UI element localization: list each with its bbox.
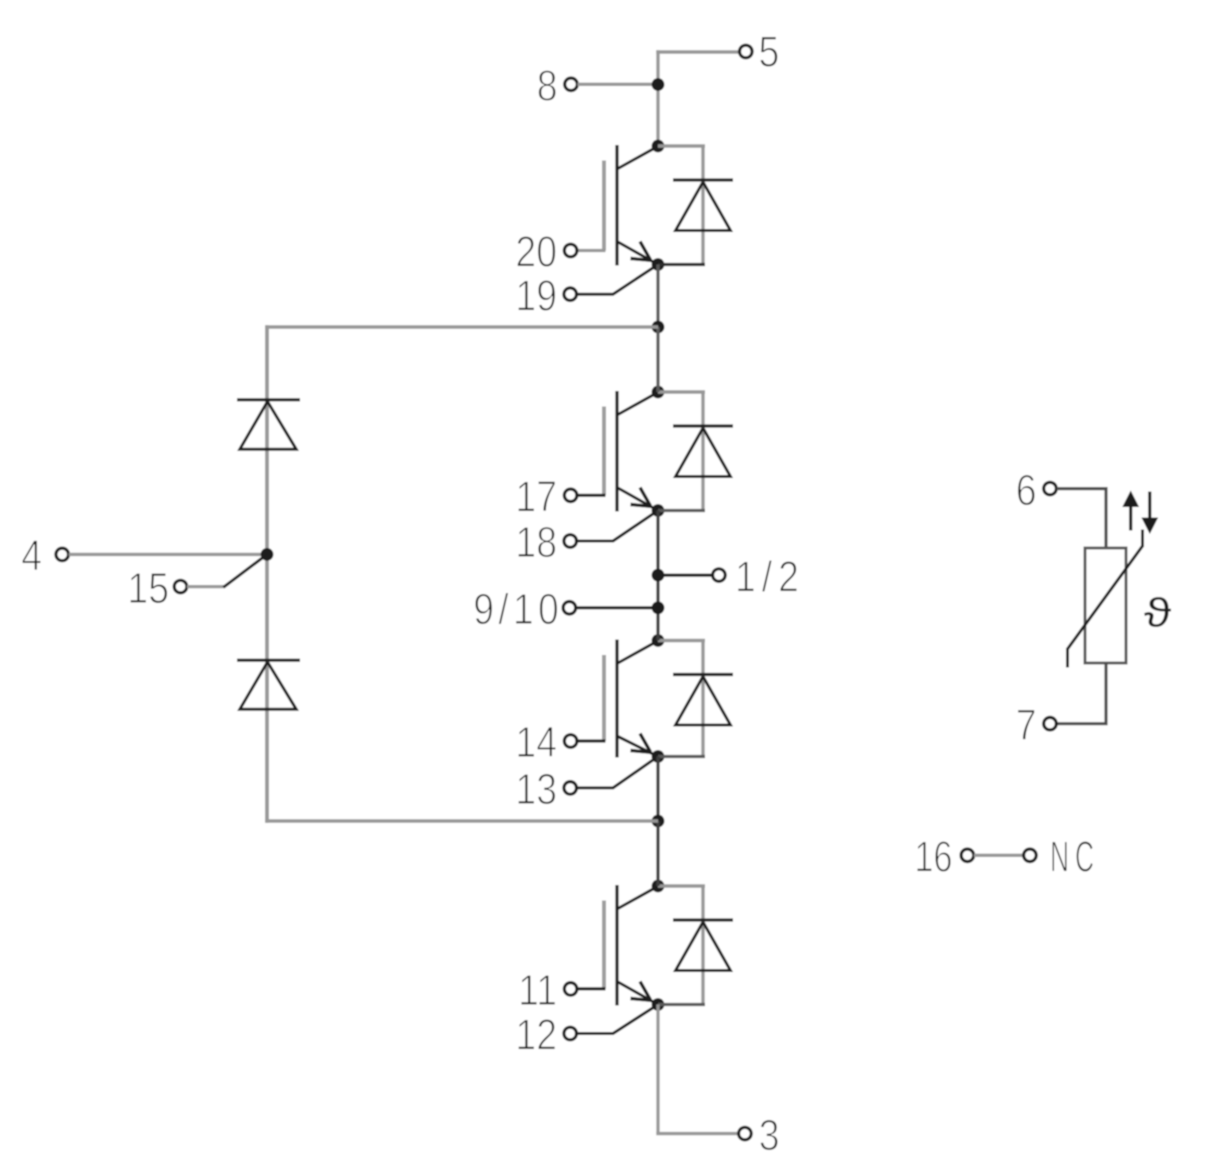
- diode D6 triangle (bottom clamp): [240, 662, 296, 709]
- wire: top vertical rail segment: [656, 50, 659, 147]
- svg-text:9/10: 9/10: [473, 584, 563, 634]
- wire: aux emitter terminal 18: [577, 512, 657, 542]
- wire: NPC bottom horizontal: [265, 819, 658, 822]
- wire: terminal 9/10 to rail: [576, 606, 652, 609]
- wire: terminal 16 to NC: [974, 854, 1024, 857]
- svg-text:18: 18: [515, 517, 557, 567]
- terminal 18 pin circle: [564, 535, 577, 548]
- wire: terminal 4 to NPC mid node: [69, 553, 261, 556]
- wire: thermistor bottom to terminal 7: [1057, 663, 1107, 724]
- wire: rail NPC bottom node to Q4 collector: [656, 821, 659, 886]
- terminal 17 pin circle: [564, 489, 577, 502]
- svg-text:19: 19: [515, 271, 557, 321]
- diode D1 triangle: [676, 182, 731, 231]
- wire: terminal 8 to rail: [578, 83, 654, 86]
- op IGBT Q1 collector node: [652, 140, 665, 153]
- wire: diode D4 top jog: [658, 884, 705, 887]
- svg-text:ϑ: ϑ: [1144, 590, 1171, 636]
- wire: rail Q3 emitter to NPC bottom node: [656, 757, 659, 822]
- IGBT Q1 emitter stroke: [618, 242, 657, 264]
- IGBT Q4 gate lead: [602, 901, 606, 989]
- svg-text:15: 15: [127, 563, 169, 613]
- svg-text:5: 5: [759, 27, 780, 77]
- wire: aux emitter terminal 13: [577, 758, 657, 788]
- wire: corner to terminal 3: [656, 1132, 738, 1135]
- IGBT Q4 emitter stroke: [618, 982, 657, 1004]
- terminal 13 pin circle: [564, 782, 577, 795]
- svg-text:4: 4: [21, 531, 42, 581]
- svg-text:1/2: 1/2: [735, 552, 805, 602]
- IGBT Q1 emitter arrowhead: [631, 242, 651, 261]
- wire: diode D3 top jog: [658, 639, 705, 642]
- diode D4 triangle: [676, 922, 731, 971]
- wire: NPC top horizontal: [265, 325, 658, 328]
- wire: top corner to terminal 5: [656, 50, 739, 53]
- wire: gate terminal 17 to gate lead: [577, 494, 606, 497]
- IGBT Q4 emitter arrowhead: [631, 982, 651, 1001]
- svg-text:14: 14: [515, 717, 557, 767]
- wire: terminal 15 diagonal to mid node: [223, 556, 265, 588]
- diode D6 cathode bar (bottom clamp): [237, 659, 300, 662]
- svg-text:NC: NC: [1050, 831, 1100, 881]
- thermistor RT diagonal bottom hook: [1066, 648, 1069, 668]
- IGBT Q2 emitter stroke: [618, 488, 657, 510]
- IGBT Q2 emitter arrowhead: [631, 488, 651, 507]
- svg-text:17: 17: [515, 472, 557, 522]
- op IGBT Q2 collector node: [652, 386, 665, 399]
- IGBT Q2 emitter node: [652, 504, 665, 517]
- wire: aux emitter terminal 19: [577, 266, 657, 295]
- terminal 9/10 pin circle: [563, 602, 576, 615]
- IGBT Q3 emitter node: [652, 750, 665, 763]
- thermistor RT diagonal stroke: [1068, 546, 1143, 649]
- IGBT Q4 collector stroke: [618, 887, 657, 909]
- terminal 16 pin circle: [961, 849, 974, 862]
- IGBT Q2 collector stroke: [618, 393, 657, 415]
- IGBT Q1 collector stroke: [618, 147, 657, 169]
- svg-text:7: 7: [1016, 700, 1037, 750]
- terminal 11 pin circle: [564, 983, 577, 996]
- node: junction of 8/5 rail: [652, 78, 665, 91]
- IGBT Q4 emitter node: [652, 998, 665, 1011]
- terminal 6 pin circle: [1044, 482, 1057, 495]
- IGBT Q4 channel bar: [615, 885, 618, 1006]
- svg-text:20: 20: [515, 227, 557, 277]
- svg-text:11: 11: [518, 965, 557, 1015]
- terminal 19 pin circle: [564, 288, 577, 301]
- IGBT Q1 gate lead: [602, 161, 606, 251]
- svg-text:6: 6: [1016, 465, 1037, 515]
- node: terminal 1/2 tap: [652, 569, 665, 582]
- terminal 1/2 pin circle: [713, 569, 726, 582]
- terminal 15 pin circle: [174, 580, 187, 593]
- svg-text:13: 13: [515, 764, 557, 814]
- wire: diode D2 branch vertical: [701, 392, 704, 511]
- wire: terminal 15 horizontal lead: [187, 585, 225, 588]
- bidirectional arrow up: [1129, 503, 1132, 531]
- wire: diode D2 bottom jog: [658, 509, 705, 512]
- wire: diode D3 bottom jog: [658, 755, 705, 758]
- IGBT Q1 channel bar: [615, 145, 618, 266]
- wire: diode D4 branch vertical: [701, 886, 704, 1005]
- wire: gate terminal 11 to gate lead: [577, 987, 606, 990]
- wire: gate terminal 20 to gate lead: [577, 249, 606, 252]
- wire: diode D1 branch vertical: [701, 146, 704, 265]
- IGBT Q3 collector stroke: [618, 641, 657, 663]
- op IGBT Q4 collector node: [652, 880, 665, 893]
- terminal 5 pin circle: [740, 45, 753, 58]
- diode D5 triangle (top clamp): [240, 402, 296, 450]
- IGBT Q3 channel bar: [615, 640, 618, 758]
- wire: diode D2 top jog: [658, 390, 705, 393]
- wire: rail Q2 emitter to AC taps: [656, 511, 659, 641]
- wire: diode D3 branch vertical: [701, 641, 704, 757]
- wire: diode D4 bottom jog: [658, 1003, 705, 1006]
- wire: terminal 6 to thermistor top: [1057, 489, 1107, 549]
- node: NPC mid junction: [261, 548, 274, 561]
- svg-text:3: 3: [759, 1110, 780, 1160]
- wire: rail Q4 emitter down to corner: [656, 1005, 659, 1134]
- op IGBT Q3 collector node: [652, 634, 665, 647]
- thermistor RT diagonal top hook: [1141, 530, 1144, 548]
- wire: rail Q1 emitter to NPC top node: [656, 265, 659, 328]
- wire: tap to terminal 1/2: [658, 573, 712, 576]
- NC pin circle: [1024, 849, 1037, 862]
- terminal 12 pin circle: [564, 1027, 577, 1040]
- wire: gate terminal 14 to gate lead: [577, 739, 606, 742]
- terminal 8 pin circle: [565, 78, 578, 91]
- terminal 14 pin circle: [564, 735, 577, 748]
- terminal 4 pin circle: [56, 548, 69, 561]
- IGBT Q2 gate lead: [602, 407, 606, 496]
- node: NPC bottom junction: [652, 815, 665, 828]
- wire: aux emitter terminal 12: [577, 1006, 657, 1034]
- bidirectional arrow down: [1148, 492, 1151, 519]
- wire: rail NPC top node to Q2 collector: [656, 327, 659, 392]
- node: NPC top junction: [652, 321, 665, 334]
- terminal 7 pin circle: [1044, 717, 1057, 730]
- node: terminal 9/10 tap: [652, 601, 665, 614]
- diode D1 cathode bar: [673, 178, 733, 181]
- IGBT Q2 channel bar: [615, 391, 618, 512]
- diode D5 cathode bar (top clamp): [237, 398, 300, 401]
- diode D3 cathode bar: [673, 673, 733, 676]
- diode D3 triangle: [676, 677, 731, 726]
- svg-text:16: 16: [914, 832, 952, 881]
- diode D4 cathode bar: [673, 918, 733, 921]
- terminal 20 pin circle: [564, 244, 577, 257]
- IGBT Q3 emitter stroke: [618, 737, 657, 757]
- diode D2 triangle: [676, 428, 731, 477]
- wire: NPC left vertical: [265, 325, 269, 822]
- IGBT Q3 gate lead: [602, 655, 606, 741]
- terminal 3 pin circle: [739, 1127, 752, 1140]
- diode D2 cathode bar: [673, 424, 733, 427]
- wire: diode D1 bottom jog: [658, 263, 705, 266]
- svg-text:12: 12: [515, 1010, 557, 1060]
- thermistor RT body box: [1085, 548, 1126, 663]
- IGBT Q3 emitter arrowhead: [631, 734, 651, 753]
- IGBT Q1 emitter node: [652, 258, 665, 271]
- wire: diode D1 top jog: [658, 144, 705, 147]
- svg-text:8: 8: [537, 61, 558, 111]
